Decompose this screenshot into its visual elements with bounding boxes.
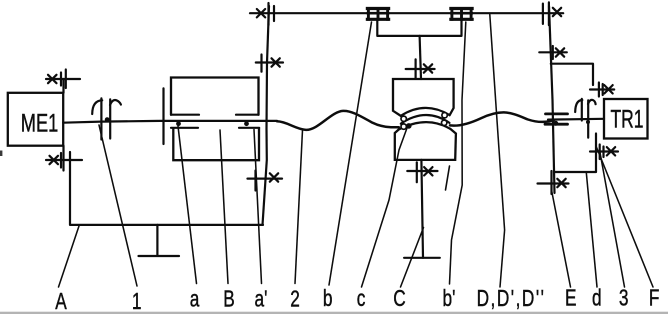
svg-text:B: B	[223, 287, 235, 312]
svg-text:F: F	[649, 286, 660, 311]
svg-text:A: A	[55, 290, 67, 314]
svg-text:a: a	[190, 287, 200, 312]
svg-text:C: C	[393, 287, 405, 312]
svg-text:2: 2	[290, 287, 300, 312]
svg-text:E: E	[565, 286, 577, 311]
svg-text:b': b'	[443, 287, 456, 312]
svg-text:c: c	[357, 287, 366, 312]
svg-text:1: 1	[132, 290, 142, 314]
svg-text:ME1: ME1	[21, 109, 59, 138]
svg-text:TR1: TR1	[610, 104, 643, 133]
svg-text:3: 3	[619, 286, 629, 311]
svg-text:d: d	[592, 286, 602, 311]
svg-text:D,D',D'': D,D',D''	[477, 287, 546, 312]
svg-text:b: b	[323, 287, 333, 312]
svg-text:a': a'	[255, 287, 268, 312]
